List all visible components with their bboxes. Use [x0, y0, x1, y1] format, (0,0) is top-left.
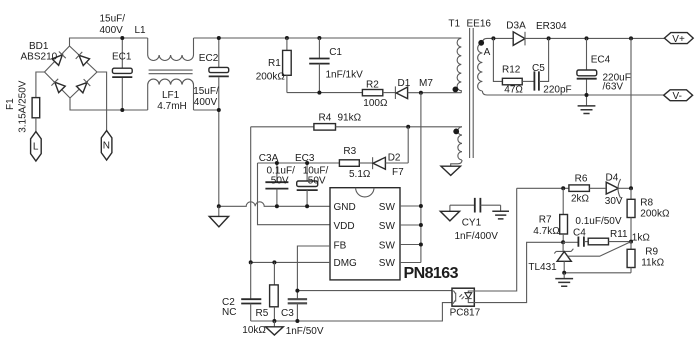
PC817 phototransistor — [452, 291, 456, 303]
svg-text:GND: GND — [334, 202, 356, 213]
svg-text:200kΩ: 200kΩ — [256, 71, 286, 82]
svg-text:EC1: EC1 — [112, 52, 132, 63]
terminal V+ — [664, 33, 693, 45]
inductor LF1 bottom winding — [148, 79, 194, 110]
svg-text:F7: F7 — [392, 167, 404, 178]
svg-text:D1: D1 — [398, 78, 411, 89]
svg-text:EE16: EE16 — [467, 19, 492, 30]
wire R3 to D2 — [359, 162, 372, 164]
svg-text:EC3: EC3 — [295, 153, 315, 164]
svg-text:SW: SW — [379, 202, 396, 213]
svg-text:47Ω: 47Ω — [504, 85, 523, 96]
svg-text:SW: SW — [379, 221, 396, 232]
svg-text:30V: 30V — [605, 196, 623, 207]
resistor R7 — [560, 188, 568, 242]
wire V- rail — [487, 94, 664, 96]
svg-text:R9: R9 — [645, 246, 658, 257]
svg-text:200kΩ: 200kΩ — [640, 208, 670, 219]
svg-text:L: L — [33, 141, 39, 152]
node dots bottom AC rail — [120, 108, 124, 112]
node dots GND wire — [217, 204, 221, 208]
wire VDD rail drop to VDD pin — [258, 163, 331, 225]
wire top rail from L1 to transformer primary — [194, 37, 462, 39]
wire top AC rail left — [70, 37, 148, 39]
wire R4 DMG riser — [250, 127, 252, 263]
svg-text:L1: L1 — [135, 25, 147, 36]
optocoupler U2 PC817 box — [452, 288, 474, 306]
svg-text:11kΩ: 11kΩ — [641, 258, 664, 269]
wire R12 snubber riser — [493, 38, 502, 81]
resistor R12 — [502, 78, 522, 85]
svg-text:15uF/: 15uF/ — [100, 14, 126, 25]
resistor R1 — [283, 38, 292, 93]
wire C5 riser to V+ rail — [539, 38, 549, 81]
svg-text:D2: D2 — [388, 153, 401, 164]
svg-text:CY1: CY1 — [462, 218, 482, 229]
capacitor EC4 — [577, 38, 597, 95]
svg-text:50V: 50V — [308, 175, 326, 186]
wire R12 to C5 — [522, 80, 534, 82]
wire TL431 ref diagonal — [568, 242, 631, 257]
wire SW pin 1 — [400, 205, 421, 207]
svg-text:C1: C1 — [329, 47, 342, 58]
svg-text:VDD: VDD — [334, 221, 355, 232]
svg-text:DMG: DMG — [334, 258, 358, 269]
wire R4 row left — [251, 126, 314, 128]
wire D4 to V+ riser — [618, 187, 631, 189]
svg-text:220pF: 220pF — [543, 85, 571, 96]
resistor R5 — [270, 262, 279, 321]
fuse F1 — [32, 98, 40, 118]
ground (CY1 right, earth) — [492, 205, 509, 219]
wire secondary top to D3A — [487, 37, 513, 39]
svg-text:ER304: ER304 — [536, 21, 567, 32]
capacitor EC2 — [209, 38, 229, 110]
svg-text:PC817: PC817 — [450, 308, 481, 319]
bridge diode top-right — [76, 52, 90, 66]
IC U1 PN8163 body — [330, 188, 400, 280]
wire SW riser — [420, 93, 422, 263]
capacitor C1 — [309, 38, 329, 93]
ground (TL431, earth) — [555, 273, 573, 286]
svg-text:EC2: EC2 — [199, 53, 219, 64]
wire L branch to fuse — [36, 72, 45, 98]
svg-text:EC4: EC4 — [591, 54, 611, 65]
svg-text:1nF/50V: 1nF/50V — [286, 326, 324, 337]
svg-text:4.7mH: 4.7mH — [157, 101, 186, 112]
T1 core lines — [470, 28, 474, 158]
svg-text:400V: 400V — [194, 97, 218, 108]
resistor R4 — [314, 124, 336, 131]
node R6 R7 junction — [561, 186, 565, 190]
ground (CY1 left, triangle) — [440, 205, 459, 221]
wire FB pin — [297, 246, 330, 291]
wire C4 to R11 — [584, 241, 588, 243]
resistor R3 — [339, 160, 359, 167]
aux bottom lead — [451, 160, 462, 166]
wire EC2 riser down to primary ground node — [218, 110, 220, 206]
svg-text:0.1uF/50V: 0.1uF/50V — [575, 216, 621, 227]
svg-text:R5: R5 — [256, 308, 269, 319]
terminal V- — [664, 90, 693, 102]
bridge BD1 diamond — [45, 38, 98, 98]
capacitor EC3 — [297, 163, 318, 206]
wire opto collector riser to R6 node — [517, 187, 569, 189]
wire V+ rail — [525, 37, 664, 39]
svg-text:10kΩ: 10kΩ — [242, 325, 266, 336]
wire bottom rail LF1 to EC2 — [194, 109, 219, 111]
svg-text:D4: D4 — [606, 173, 619, 184]
svg-text:R1: R1 — [268, 58, 281, 69]
svg-text:3.15A/250V: 3.15A/250V — [18, 80, 29, 133]
secondary polarity dot — [478, 40, 484, 46]
svg-text:C3: C3 — [281, 308, 294, 319]
ground (primary, triangle below EC2 node) — [209, 206, 228, 227]
ground (R5 bottom, triangle) — [266, 321, 284, 335]
ground (EC4, earth) — [578, 95, 596, 114]
diode D4 zener — [606, 179, 620, 198]
svg-text:100Ω: 100Ω — [363, 98, 388, 109]
wire R11 to node — [609, 241, 632, 243]
bridge diode bottom-right — [76, 79, 90, 93]
svg-text:A: A — [484, 47, 491, 58]
svg-text:TL431: TL431 — [528, 262, 557, 273]
svg-text:R7: R7 — [539, 215, 552, 226]
diode D2 — [373, 157, 409, 169]
svg-text:V+: V+ — [672, 34, 685, 45]
svg-text:C5: C5 — [532, 63, 545, 74]
svg-text:ABS210: ABS210 — [21, 52, 58, 63]
svg-text:SW: SW — [379, 258, 396, 269]
wire SW pin 2 — [400, 224, 421, 226]
svg-text:R3: R3 — [343, 146, 356, 157]
primary polarity dot — [453, 87, 459, 93]
transformer aux winding — [458, 127, 462, 160]
svg-text:1kΩ: 1kΩ — [632, 233, 651, 244]
svg-text:D3A: D3A — [506, 20, 526, 31]
svg-text:4.7kΩ: 4.7kΩ — [533, 226, 560, 237]
wire R6 to D4 — [589, 187, 605, 189]
bridge diode bottom-left — [51, 79, 65, 93]
wire TL431 anode row to R9 — [564, 272, 631, 274]
wire D1 to primary bottom — [408, 92, 462, 94]
node R4 aux D2 junction — [406, 125, 410, 129]
svg-text:400V: 400V — [100, 25, 124, 36]
svg-text:R11: R11 — [610, 229, 628, 240]
svg-text:FB: FB — [334, 241, 347, 252]
svg-text:V-: V- — [673, 91, 682, 102]
L1 core lines — [149, 70, 193, 74]
svg-text:1nF/1kV: 1nF/1kV — [326, 70, 364, 81]
resistor R9 — [627, 242, 635, 273]
svg-text:1nF/400V: 1nF/400V — [455, 231, 499, 242]
bridge diode top-left — [52, 52, 66, 66]
svg-text:R6: R6 — [575, 173, 588, 184]
ground (aux winding, triangle) — [441, 166, 461, 175]
shunt regulator TL431 — [554, 242, 573, 272]
wire N branch — [97, 72, 107, 131]
node TL431 cathode — [561, 240, 565, 244]
transformer secondary winding — [478, 44, 483, 92]
capacitor C2 — [241, 262, 261, 321]
svg-text:T1: T1 — [448, 19, 460, 30]
svg-text:PN8163: PN8163 — [404, 265, 459, 282]
terminal L — [31, 132, 42, 161]
svg-text:91kΩ: 91kΩ — [338, 112, 362, 123]
svg-text:R2: R2 — [366, 79, 379, 90]
wire bottom primary rail — [251, 303, 452, 321]
svg-text:50V: 50V — [271, 175, 289, 186]
capacitor C5 — [534, 71, 539, 90]
capacitor C3 — [288, 291, 307, 321]
svg-text:2kΩ: 2kΩ — [571, 193, 590, 204]
node dots SW riser — [419, 204, 423, 208]
capacitor EC1 — [112, 38, 132, 110]
svg-text:F1: F1 — [5, 98, 16, 110]
svg-text:R12: R12 — [502, 65, 521, 76]
aux polarity dot — [453, 129, 459, 135]
wire SW pin 3 — [400, 244, 421, 246]
node DMG junctions — [249, 260, 253, 264]
svg-text:M7: M7 — [419, 78, 433, 89]
svg-text:LF1: LF1 — [162, 90, 180, 101]
node R8 R9 R11 ref junction — [629, 240, 633, 244]
node dots V+ rail — [491, 36, 495, 40]
PC817 light arrows — [459, 294, 464, 299]
wire FB node to optocoupler — [297, 290, 452, 292]
svg-text:/63V: /63V — [603, 82, 624, 93]
wire cathode to C4 — [563, 241, 578, 243]
wire SW pin 4 — [400, 262, 421, 264]
node dots top rail — [120, 36, 124, 40]
terminal N — [101, 131, 112, 160]
wire DC minus rail — [70, 98, 148, 110]
capacitor CY1 — [450, 198, 501, 213]
wire R1 C1 bottom row to R2 — [287, 92, 363, 94]
capacitor C3A — [265, 163, 288, 206]
wire VDD rail — [258, 162, 340, 164]
svg-text:C4: C4 — [573, 228, 586, 239]
node dots VDD rail — [275, 161, 279, 165]
secondary top lead — [482, 38, 487, 43]
PC817 LED — [465, 291, 474, 303]
wire R4 to aux winding — [336, 126, 463, 128]
wire opto LED cathode riser to TL431 cathode — [474, 242, 563, 302]
resistor R11 — [588, 238, 608, 245]
resistor R6 — [569, 185, 590, 192]
svg-text:SW: SW — [379, 240, 396, 251]
wire fuse to L terminal — [35, 118, 37, 132]
resistor R2 — [362, 90, 395, 96]
svg-text:5.1Ω: 5.1Ω — [349, 169, 371, 180]
inductor L1 top winding — [148, 38, 194, 60]
capacitor C4 — [578, 237, 584, 247]
diode D1 — [395, 86, 407, 99]
diode D3A — [513, 32, 525, 46]
svg-text:R4: R4 — [319, 112, 332, 123]
wire GND pin with hops — [219, 202, 330, 207]
svg-text:BD1: BD1 — [29, 41, 49, 52]
wire D2 riser — [407, 127, 409, 163]
svg-text:R8: R8 — [640, 197, 653, 208]
svg-text:N: N — [103, 141, 110, 152]
secondary bottom lead — [482, 91, 487, 95]
resistor R8 — [627, 188, 635, 241]
node M7 junction — [419, 91, 423, 95]
transformer T1 primary winding — [457, 38, 461, 92]
svg-text:NC: NC — [222, 307, 236, 318]
wire V+ sense riser — [630, 38, 632, 188]
wire DMG pin — [251, 261, 330, 263]
svg-text:15uF/: 15uF/ — [193, 86, 219, 97]
